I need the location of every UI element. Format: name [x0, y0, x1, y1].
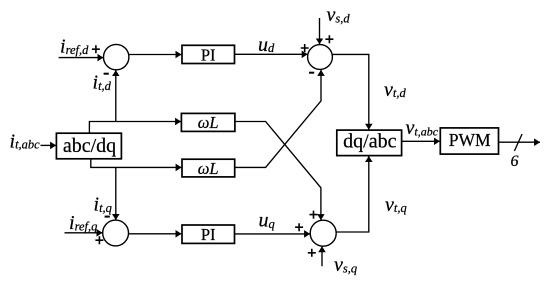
wire S4 output v_t,q to dq/abc: [336, 156, 369, 232]
wire i_ref,d input arrow: [59, 57, 104, 59]
wire omega-L lower output cross-coupling to S2: [235, 70, 321, 167]
svg-text:abc/dq: abc/dq: [63, 135, 116, 157]
wire S3 to PI (q-axis): [128, 233, 181, 235]
summing junction S3: [103, 220, 129, 246]
plus sign at S3 left input: [95, 236, 103, 244]
wire v_s,d input arrow: [319, 18, 321, 44]
svg-text:it,d: it,d: [93, 72, 112, 94]
wire PI to S4 (u_q): [235, 233, 310, 235]
wire dq/abc to PWM (v_t,abc): [402, 140, 440, 142]
wire abc/dq bottom output branch to omega-L lower: [91, 159, 182, 168]
svg-text:6: 6: [511, 153, 519, 170]
svg-text:ud: ud: [258, 34, 275, 56]
svg-text:dq/abc: dq/abc: [343, 130, 396, 152]
wire S1 to PI (d-axis): [129, 54, 182, 56]
plus sign at S4 top input: [310, 211, 318, 219]
wire v_s,q input arrow: [321, 246, 323, 266]
svg-text:PI: PI: [201, 46, 216, 65]
wire i_t,abc input arrow: [41, 144, 57, 146]
svg-text:it,abc: it,abc: [10, 130, 41, 152]
plus sign at S1 input: [92, 45, 100, 53]
block dq/abc: [337, 130, 402, 156]
summing junction S4: [310, 220, 336, 246]
svg-text:iref,d: iref,d: [60, 36, 89, 58]
svg-text:vt,q: vt,q: [385, 194, 407, 216]
svg-text:vs,q: vs,q: [334, 254, 357, 276]
svg-text:PI: PI: [201, 225, 216, 244]
block PWM: [440, 128, 498, 154]
wire PWM output: [499, 141, 541, 143]
wire i_ref,q input arrow: [65, 232, 103, 234]
block omega-L upper: [181, 113, 235, 131]
block omega-L lower: [182, 159, 235, 177]
svg-text:vs,d: vs,d: [327, 4, 351, 26]
wire i_t,q feedback into S3: [115, 167, 117, 220]
svg-text:it,q: it,q: [94, 194, 112, 216]
svg-text:vt,d: vt,d: [384, 79, 406, 101]
svg-text:uq: uq: [259, 210, 275, 232]
wire PI to S2 (u_d): [235, 53, 308, 55]
svg-text:vt,abc: vt,abc: [406, 117, 439, 139]
summing junction S1: [104, 44, 129, 69]
plus sign at S4 bottom input: [308, 249, 316, 257]
wire omega-L upper output cross-coupling to S4: [235, 122, 321, 221]
svg-text:PWM: PWM: [449, 130, 491, 150]
minus sign at S3 top: [105, 216, 110, 218]
block PI q-axis: [182, 225, 235, 243]
svg-text:ωL: ωL: [198, 159, 219, 178]
plus sign at S4 left input: [295, 223, 303, 231]
wire abc/dq top output branch to omega-L upper: [89, 122, 181, 134]
plus sign at S2 left input: [301, 44, 309, 52]
block PI d-axis: [182, 45, 235, 63]
svg-text:ωL: ωL: [198, 113, 219, 132]
wire S2 output v_t,d to dq/abc: [333, 54, 369, 129]
wire i_t,d feedback into S1: [115, 70, 117, 121]
minus sign at S1 feedback: [104, 73, 109, 75]
summing junction S2: [308, 45, 333, 70]
bus slash mark: [514, 134, 522, 151]
block abc/dq: [56, 133, 121, 159]
plus sign at S2 top input: [325, 35, 333, 43]
minus sign at S2 bottom: [309, 72, 314, 74]
